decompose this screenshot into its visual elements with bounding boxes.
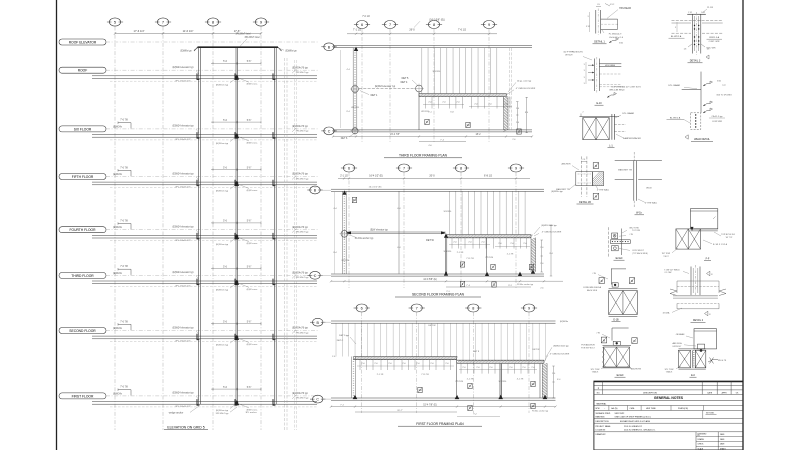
svg-text:3PL 1/4x10 1/2": 3PL 1/4x10 1/2" — [175, 187, 191, 189]
svg-text:3PL3/8x7 typ: 3PL3/8x7 typ — [296, 397, 310, 400]
beam lines at FOURTH FLOOR — [92, 234, 317, 236]
svg-text:DESCRIPTION:: DESCRIPTION: — [596, 421, 610, 423]
svg-text:2'-6: 2'-6 — [540, 247, 543, 249]
detailW1b top dashes — [633, 152, 635, 161]
svg-text:(E)W24 elevator typ: (E)W24 elevator typ — [375, 85, 396, 88]
material cells — [608, 406, 610, 411]
plan3 long joists — [335, 323, 337, 356]
svg-text:3: 3 — [675, 27, 676, 29]
svg-text:W? TOW: W? TOW — [662, 253, 670, 255]
detailE2 box circle bottom — [612, 246, 619, 251]
plan1 column circle grid6/B-C — [352, 86, 359, 93]
detail3 column cap — [688, 13, 706, 15]
bay dimension at FIFTH FLOOR — [211, 169, 261, 171]
connection bracket THIRD FLOOR x274.8 — [273, 279, 275, 285]
svg-text:DAMPER/SPACER: DAMPER/SPACER — [623, 137, 641, 140]
plan1 mid vertical beam — [418, 92, 420, 130]
svg-text:MASONRY TW: MASONRY TW — [618, 168, 632, 171]
bay dimension at FOURTH FLOOR — [211, 222, 261, 224]
svg-text:PL 3/8x6x0'-9: PL 3/8x6x0'-9 — [609, 34, 622, 36]
svg-text:# W: # W — [596, 332, 600, 334]
plan3 grid line x361.7 — [361, 312, 363, 413]
plan2 C chord lines — [331, 273, 544, 275]
plan1 B chord lines — [333, 45, 532, 47]
svg-text:DET W: DET W — [532, 349, 540, 351]
svg-text:(E)W24x: (E)W24x — [113, 273, 123, 275]
column mid bay — [235, 47, 237, 404]
svg-text:PL3/4x anchor typ: PL3/4x anchor typ — [517, 283, 534, 286]
sheet left border line — [56, 0, 58, 450]
plan2 column triangles — [444, 233, 448, 237]
svg-text:1/4: 1/4 — [684, 49, 687, 51]
connection bracket FOURTH FLOOR x236.8 — [235, 233, 237, 239]
svg-text:3PL 1/4x10 1/2": 3PL 1/4x10 1/2" — [175, 286, 191, 288]
detailW1b top horizontal — [615, 160, 662, 162]
svg-text:GA. (N): GA. (N) — [611, 407, 618, 410]
detail3 top dims — [687, 14, 706, 16]
plan2 flag 10 — [529, 264, 533, 269]
detailE1 corner lines — [610, 269, 612, 285]
svg-text:LOCATION:: LOCATION: — [596, 428, 607, 431]
svg-text:C: C — [316, 398, 319, 402]
svg-text:PAINTING:: PAINTING: — [596, 415, 606, 418]
floor level label SECOND FLOOR — [59, 328, 106, 334]
svg-text:DETAIL 2: DETAIL 2 — [693, 319, 704, 322]
plan2 left dim line — [334, 192, 336, 274]
plan2 flag 11 — [492, 282, 496, 287]
plan1 column circle at C — [352, 128, 358, 134]
svg-text:16'-4 1/2" (E): 16'-4 1/2" (E) — [369, 187, 382, 189]
plan3 sub joists B — [460, 364, 462, 374]
plan2 elevator beam double line — [347, 231, 446, 233]
plan1 flag 10 — [466, 122, 470, 127]
svg-text:7'-6 7/8: 7'-6 7/8 — [120, 266, 128, 268]
plan2 bottom dims — [331, 280, 563, 282]
detail2 slab band 1 — [677, 280, 719, 282]
svg-text:SECOND FLOOR: SECOND FLOOR — [69, 329, 96, 333]
svg-text:(E)W24x: (E)W24x — [113, 174, 123, 176]
plan1 beam line B-C dashed — [359, 88, 415, 90]
floor level line ROOF — [106, 69, 318, 71]
svg-text:EACH SIDE: EACH SIDE — [587, 289, 598, 292]
svg-text:# W: # W — [629, 234, 633, 236]
svg-text:52'-4 7/8" (E): 52'-4 7/8" (E) — [423, 404, 437, 406]
svg-text:2101 N. GREEN ST.: 2101 N. GREEN ST. — [624, 426, 643, 428]
detail3 column — [691, 14, 693, 54]
plan3 grid bubble 9 — [523, 304, 534, 312]
svg-text:C8X11.5 A: C8X11.5 A — [709, 36, 720, 39]
hatched beam strip plan3 B — [457, 359, 544, 361]
svg-text:5'-6": 5'-6" — [247, 387, 252, 389]
svg-text:44'-0 5/8" (E): 44'-0 5/8" (E) — [423, 279, 437, 281]
svg-text:# W: # W — [592, 273, 596, 275]
svg-text:DET W: DET W — [426, 239, 434, 242]
plan3 column triangles — [353, 395, 358, 399]
floor level line ROOF ELEVATOR — [106, 41, 318, 43]
svg-text:(E)W24 elevator typ: (E)W24 elevator typ — [172, 271, 194, 274]
svg-text:26'-0: 26'-0 — [409, 29, 415, 32]
svg-text:(E)W bm typ: (E)W bm typ — [216, 409, 229, 412]
detailE0 box — [698, 344, 705, 349]
plan2 top dimension row — [338, 178, 530, 180]
svg-text:TOP B.PLK 3/4: TOP B.PLK 3/4 — [721, 234, 735, 236]
svg-text:HSS BEAM: HSS BEAM — [619, 7, 631, 10]
svg-text:(E)W24 elevator typ: (E)W24 elevator typ — [172, 172, 194, 175]
svg-text:W-1b: W-1b — [636, 212, 642, 215]
svg-text:DRAWN BY: DRAWN BY — [596, 433, 607, 436]
bay dimension at SECOND FLOOR — [211, 323, 261, 325]
svg-text:T.BOT: T.BOT — [663, 256, 669, 258]
svg-text:W10X: W10X — [646, 187, 652, 189]
svg-text:FIRST FLOOR FRAMING PLAN: FIRST FLOOR FRAMING PLAN — [416, 422, 464, 426]
plan1 grid bubble 6 — [356, 21, 367, 29]
svg-text:MATERIAL: MATERIAL — [597, 402, 608, 405]
svg-text:2'-1 1/2: 2'-1 1/2 — [340, 176, 348, 178]
svg-text:(E)W cross: (E)W cross — [247, 83, 259, 86]
svg-text:3: 3 — [584, 83, 585, 85]
svg-text:W.W: W.W — [596, 408, 600, 410]
plan2 flag 9 — [460, 281, 464, 286]
svg-text:DETAIL 1: DETAIL 1 — [594, 41, 605, 44]
svg-text:E2-E0: E2-E0 — [617, 374, 624, 377]
diagonal hatched wall plan2 — [530, 238, 532, 272]
svg-text:(E)W cross: (E)W cross — [247, 343, 259, 346]
column at grid 9 — [273, 47, 275, 404]
plan1 flag 12 — [517, 129, 521, 134]
beam lines at SIX FLOOR — [92, 134, 317, 136]
svg-text:(E)W elevator typ: (E)W elevator typ — [370, 228, 388, 231]
svg-text:W12X26: W12X26 — [455, 381, 464, 383]
svg-text:SURFACE PREP:: SURFACE PREP: — [596, 412, 612, 415]
svg-text:DATE: DATE — [707, 392, 712, 395]
svg-text:W12X26: W12X26 — [433, 71, 442, 73]
hatched beam strip plan1 — [419, 93, 507, 95]
svg-text:FOR EXP BOLT: FOR EXP BOLT — [581, 347, 595, 349]
left step mark THIRD FLOOR — [118, 268, 131, 270]
plan1 grid bubble 7 — [384, 21, 395, 29]
svg-text:NO.: NO. — [597, 393, 601, 395]
plan1 sub dims — [423, 104, 464, 106]
detail2 break right — [719, 289, 726, 296]
detailE0 wall rect — [694, 329, 717, 349]
svg-text:W/ NUT: W/ NUT — [565, 55, 573, 57]
connection bracket FOURTH FLOOR x198.8 — [197, 233, 199, 239]
svg-text:(E)W bm typ: (E)W bm typ — [216, 142, 229, 145]
svg-text:7'-6 7/8: 7'-6 7/8 — [120, 321, 128, 323]
existing column dashed pair 2 — [293, 60, 295, 430]
svg-text:8: 8 — [472, 307, 474, 311]
svg-text:DESCRIPTION: DESCRIPTION — [643, 393, 657, 395]
svg-text:(E)W cross: (E)W cross — [247, 242, 259, 245]
detailE1 truss — [609, 288, 638, 290]
detailE10 beam HSS — [599, 63, 621, 65]
svg-text:FOURTH FLOOR: FOURTH FLOOR — [70, 228, 97, 232]
connection bracket FIFTH FLOOR x236.8 — [235, 180, 237, 186]
hatched beam strip plan3 A — [353, 356, 456, 358]
floor level label FIFTH FLOOR — [59, 174, 106, 180]
detail3 bolts — [694, 25, 695, 26]
svg-text:CHECK: CHECK — [698, 444, 705, 446]
plan2 row bubble B — [310, 186, 320, 194]
svg-text:3PL 1/4x10 1/2": 3PL 1/4x10 1/2" — [175, 80, 191, 82]
plan2 right vertical dims — [541, 240, 543, 272]
plan1 grid line x434 — [433, 29, 435, 143]
svg-text:8: 8 — [460, 167, 462, 171]
plan2 row bubble C — [310, 271, 320, 279]
left step mark FOURTH FLOOR — [118, 223, 131, 225]
svg-text:W12X26: W12X26 — [499, 381, 508, 383]
detail3 bottom marks — [688, 44, 692, 47]
svg-text:3PL 1/4x10 1/2": 3PL 1/4x10 1/2" — [175, 139, 191, 141]
detailE2 vertical dashed — [608, 227, 610, 257]
svg-text:7'-6 7/8: 7'-6 7/8 — [120, 387, 128, 389]
svg-text:10 ga. conn typ: 10 ga. conn typ — [517, 79, 532, 82]
svg-text:DET 5: DET 5 — [402, 77, 409, 80]
svg-text:7'-11 7/8: 7'-11 7/8 — [421, 374, 429, 376]
svg-text:17'-6 1/4": 17'-6 1/4" — [134, 29, 145, 33]
svg-text:C/L: C/L — [583, 159, 586, 161]
svg-text:18'-2: 18'-2 — [475, 134, 481, 136]
detail2 lower dashed band — [677, 303, 719, 305]
welddetail weld arrows top — [703, 84, 710, 87]
svg-text:NOT DWL: NOT DWL — [706, 413, 714, 415]
svg-text:BL.W1/2 A: BL.W1/2 A — [670, 117, 681, 120]
svg-text:6: 6 — [348, 167, 350, 171]
svg-text:STL. BEAM: STL. BEAM — [622, 112, 634, 115]
plan2 joists — [449, 192, 451, 235]
svg-text:SSPC/SP2: SSPC/SP2 — [615, 413, 626, 415]
plan1 joists — [421, 48, 423, 94]
plan3 mid verticals — [456, 360, 458, 398]
svg-text:FIFTH FLOOR: FIFTH FLOOR — [72, 175, 94, 179]
svg-text:CONT W/R: CONT W/R — [712, 121, 723, 123]
connection bracket THIRD FLOOR x198.8 — [197, 279, 199, 285]
detailFF arrow — [691, 227, 694, 231]
svg-text:DET 1: DET 1 — [371, 94, 378, 97]
svg-text:CONT. W/R: CONT. W/R — [709, 41, 720, 43]
plan3 grid line x529 — [528, 312, 530, 413]
svg-text:DETAIL 1B: DETAIL 1B — [579, 201, 591, 204]
left step mark FIFTH FLOOR — [118, 169, 131, 171]
svg-text:3PL 1/4x10 1/2": 3PL 1/4x10 1/2" — [175, 240, 191, 242]
svg-text:NTS. W/R: NTS. W/R — [707, 47, 717, 49]
detail2 pipe column — [690, 267, 692, 296]
roof elevator beam W8x31 — [198, 46, 279, 48]
svg-text:7'-1 1/2: 7'-1 1/2 — [353, 29, 362, 32]
svg-text:3: 3 — [587, 16, 588, 18]
plan1 bottom dim — [333, 136, 532, 138]
detailE10 weld symbol — [607, 95, 614, 98]
detail1 top dim — [596, 6, 601, 8]
svg-text:PLATE(CN): PLATE(CN) — [678, 407, 688, 410]
plan3 grid bubble 6 — [356, 304, 367, 312]
svg-text:3PL3/8x7 typ: 3PL3/8x7 typ — [296, 71, 310, 74]
svg-text:APPR: APPR — [722, 392, 728, 395]
plan1 flag 8 — [425, 119, 429, 124]
svg-text:E2-E0: E2-E0 — [616, 257, 623, 260]
beam lines at FIRST FLOOR — [92, 401, 317, 403]
svg-text:3: 3 — [584, 70, 585, 72]
svg-text:(E)W bm typ: (E)W bm typ — [216, 83, 229, 86]
floor level label THIRD FLOOR — [59, 272, 106, 278]
svg-text:3/16 & TS: 3/16 & TS — [718, 360, 727, 362]
detail3 horizontal beams — [672, 20, 723, 22]
plan3 bottom dims — [331, 406, 556, 408]
svg-text:1 1/2: 1 1/2 — [688, 12, 692, 14]
svg-text:20'-7": 20'-7" — [397, 410, 403, 412]
detail3 left dim — [676, 22, 678, 32]
svg-text:PL 3/8: PL 3/8 — [707, 7, 714, 9]
svg-text:5'-6": 5'-6" — [247, 322, 252, 324]
detail1b top dim — [581, 161, 587, 163]
detailE2b corner — [612, 327, 629, 329]
svg-text:3/16: 3/16 — [717, 81, 721, 83]
svg-text:2'-6: 2'-6 — [512, 139, 515, 141]
detailE1 box — [612, 283, 618, 287]
welddetail dashed box — [691, 113, 701, 130]
plan1 wall top triangle — [354, 47, 358, 51]
svg-text:FIRST FLOOR: FIRST FLOOR — [72, 394, 94, 398]
floor level line FIRST FLOOR — [106, 395, 318, 397]
plan2 flag top-left — [352, 197, 356, 202]
svg-text:BL.W1/2 A: BL.W1/2 A — [671, 35, 682, 38]
detailE2b box — [613, 341, 620, 345]
svg-text:CHNL: CHNL — [630, 408, 635, 410]
plan1 grid bubble 8 — [428, 21, 439, 29]
svg-text:SIX FLOOR: SIX FLOOR — [74, 127, 92, 131]
bay dimension at FIRST FLOOR — [211, 388, 261, 390]
svg-text:(E)W24x: (E)W24x — [113, 328, 123, 330]
svg-text:SECOND FLOOR FRAMING PLAN: SECOND FLOOR FRAMING PLAN — [412, 293, 465, 297]
svg-text:ROOF: ROOF — [78, 69, 88, 73]
detail1b column dashed — [580, 156, 582, 196]
plan1 existing dashed pair — [509, 48, 511, 132]
svg-text:4" CMU BLOCK W/R: 4" CMU BLOCK W/R — [516, 88, 536, 90]
svg-text:F-F: F-F — [706, 257, 710, 260]
detailE10 column — [593, 59, 595, 92]
svg-text:3PL3/8x7 typ: 3PL3/8x7 typ — [296, 177, 310, 180]
svg-text:E-10: E-10 — [596, 102, 602, 105]
svg-text:HDR TUBE: HDR TUBE — [646, 408, 656, 410]
detail2 break left — [670, 289, 677, 296]
detail2 F flag bottom — [705, 311, 708, 316]
bay dimension at THIRD FLOOR — [211, 268, 261, 270]
connection bracket SIX FLOOR x274.8 — [273, 132, 275, 138]
svg-text:(E)W24 elevator typ: (E)W24 elevator typ — [172, 226, 194, 229]
svg-text:4" CMU BLOCK W/R: 4" CMU BLOCK W/R — [550, 354, 570, 356]
floor level line SECOND FLOOR — [106, 330, 318, 332]
svg-text:C: C — [314, 274, 317, 278]
svg-text:(E)W cross: (E)W cross — [247, 141, 259, 144]
svg-text:3PL3/8x7 typ: 3PL3/8x7 typ — [216, 412, 230, 415]
svg-text:COR. W/LDT: COR. W/LDT — [632, 250, 645, 252]
svg-text:2'-6: 2'-6 — [552, 373, 555, 375]
floor level line FIFTH FLOOR — [106, 176, 318, 178]
svg-text:2'-1 7/8: 2'-1 7/8 — [457, 252, 464, 254]
svg-text:3PL3/8x7 typ: 3PL3/8x7 typ — [296, 130, 310, 133]
svg-text:T.BACK: T.BACK — [592, 370, 599, 373]
detailE0 mid hatched strip — [691, 350, 693, 368]
svg-text:ANCHOR: ANCHOR — [561, 163, 571, 166]
bay dimension at ROOF — [211, 62, 261, 64]
connection bracket FOURTH FLOOR x274.8 — [273, 233, 275, 239]
svg-text:5'-6": 5'-6" — [247, 120, 252, 122]
svg-text:OC CAP: OC CAP — [664, 271, 672, 274]
svg-text:20'-0: 20'-0 — [429, 175, 435, 178]
svg-text:(E)W24 lintel typ: (E)W24 lintel typ — [541, 224, 557, 227]
wall strip plan2 left wall — [342, 191, 344, 274]
svg-text:4" THK WALL: 4" THK WALL — [645, 202, 658, 205]
plan1 top dimension row — [347, 33, 497, 35]
grid line 213 dashed vertical — [212, 27, 214, 431]
connection bracket SECOND FLOOR x274.8 — [273, 334, 275, 340]
svg-text:(E)W24 elevator typ: (E)W24 elevator typ — [172, 392, 194, 395]
svg-text:W12X26: W12X26 — [444, 251, 453, 253]
revision column dividers — [602, 381, 604, 394]
svg-text:DET C: DET C — [337, 340, 344, 342]
detail1 weld symbol — [609, 40, 616, 43]
svg-text:3PL3/8x7 lintel: 3PL3/8x7 lintel — [244, 36, 260, 39]
connection bracket SIX FLOOR x236.8 — [235, 132, 237, 138]
svg-text:6'-8 1/2: 6'-8 1/2 — [484, 175, 493, 178]
plan2 grid line x349 — [348, 172, 350, 288]
svg-text:(TYP EACH SIDE): (TYP EACH SIDE) — [632, 252, 648, 255]
svg-text:9: 9 — [515, 167, 517, 171]
plan1 right vertical dims — [516, 102, 518, 130]
svg-text:4'-1 7/8: 4'-1 7/8 — [517, 378, 524, 380]
detailE2b M flags — [601, 337, 606, 343]
svg-text:(E)W cross: (E)W cross — [247, 288, 259, 291]
svg-text:(E)W24 lintel typ: (E)W24 lintel typ — [553, 344, 569, 347]
svg-text:W12 TOW: W12 TOW — [629, 227, 638, 229]
grid bubble 7 — [157, 18, 168, 26]
connection bracket SECOND FLOOR x236.8 — [235, 334, 237, 340]
sheet right border line — [742, 0, 744, 450]
svg-text:WELD AS REQD: WELD AS REQD — [609, 88, 625, 91]
svg-text:7: 7 — [403, 167, 405, 171]
svg-text:2'-6: 2'-6 — [540, 288, 543, 290]
svg-text:2'-1 7/8: 2'-1 7/8 — [377, 374, 384, 376]
svg-text:7'-0 1/2: 7'-0 1/2 — [362, 16, 370, 18]
svg-text:(E)W24x: (E)W24x — [560, 321, 569, 323]
detailE0 truss — [679, 348, 706, 350]
detailFF wall rect — [690, 209, 717, 229]
svg-text:11'-6 1/4": 11'-6 1/4" — [183, 29, 194, 33]
plan2 mid bay joist — [398, 192, 400, 274]
detailE1 M flags — [599, 278, 604, 284]
svg-text:DET W: DET W — [428, 325, 436, 327]
plan3 grid bubble 8 — [468, 304, 479, 312]
plan1 row bubble C — [324, 127, 334, 135]
floor level label ROOF — [59, 67, 106, 73]
svg-text:3: 3 — [584, 77, 585, 79]
svg-text:C W OR BEAM 1/2" CONT SLTS: C W OR BEAM 1/2" CONT SLTS — [611, 85, 641, 88]
floor level label SIX FLOOR — [59, 126, 106, 132]
floor level label FOURTH FLOOR — [59, 227, 106, 233]
svg-text:ROOF ELEVATOR: ROOF ELEVATOR — [69, 40, 97, 44]
grid line 163 dashed vertical — [162, 27, 164, 431]
svg-text:3 1/2: 3 1/2 — [586, 26, 590, 28]
connection bracket ROOF x198.8 — [197, 73, 199, 79]
detailL1 column — [611, 114, 613, 140]
svg-text:PROJECT NAME:: PROJECT NAME: — [596, 425, 612, 428]
beam lines at FIFTH FLOOR — [92, 181, 317, 183]
plan2 wall top triangle — [342, 190, 346, 194]
detail2 F flag top — [707, 271, 710, 276]
plan3 flags — [468, 383, 472, 388]
left step mark FIRST FLOOR — [118, 389, 131, 391]
svg-text:3/16: 3/16 — [619, 42, 623, 44]
